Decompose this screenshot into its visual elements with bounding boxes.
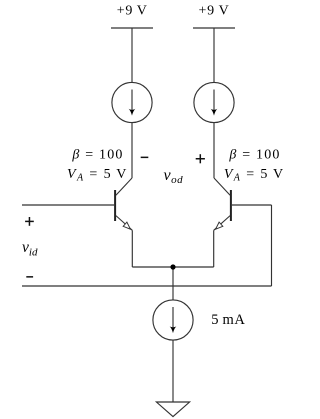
wire Q2 emitter down — [213, 230, 215, 267]
wire Q1 emitter down — [131, 230, 133, 267]
arrow of I1 — [129, 90, 136, 116]
wire tail node to I3 — [172, 267, 174, 300]
wire Q2 base to right side — [232, 204, 272, 206]
wire vid- input bottom — [22, 285, 272, 287]
svg-text:5 mA: 5 mA — [211, 312, 245, 328]
svg-text:vid: vid — [22, 239, 38, 258]
wire I2 to Q2 collector — [213, 123, 215, 178]
transistor Q2 — [214, 178, 231, 230]
wire VCC-left to I1 — [131, 28, 133, 83]
current source I2 — [194, 82, 234, 122]
svg-text:β = 100: β = 100 — [228, 148, 280, 163]
transistor Q1 — [115, 178, 132, 230]
wire vid+ input to Q1 base — [22, 204, 114, 206]
wire emitter join — [132, 266, 213, 268]
wire I3 to ground — [172, 340, 174, 402]
svg-text:β = 100: β = 100 — [71, 148, 123, 163]
wire right side down — [271, 205, 273, 286]
arrow of I2 — [211, 90, 218, 116]
current source I1 — [112, 82, 152, 122]
supply bar VCC right — [193, 27, 235, 29]
label vod plus — [196, 154, 205, 163]
svg-text:+9 V: +9 V — [117, 4, 148, 19]
arrow of I3 — [170, 307, 177, 333]
svg-text:+9 V: +9 V — [198, 4, 229, 19]
ground — [156, 402, 189, 417]
wire VCC-right to I2 — [213, 28, 215, 83]
label vod minus — [141, 157, 149, 159]
svg-text:VA = 5 V: VA = 5 V — [224, 167, 285, 184]
wire I1 to Q1 collector — [131, 123, 133, 178]
supply bar VCC left — [111, 27, 153, 29]
label vid minus — [26, 276, 33, 278]
node tail junction — [170, 264, 175, 269]
svg-text:vod: vod — [163, 167, 183, 186]
svg-text:VA = 5 V: VA = 5 V — [67, 167, 128, 184]
label vid plus — [25, 217, 34, 226]
current source I3 — [153, 300, 193, 340]
